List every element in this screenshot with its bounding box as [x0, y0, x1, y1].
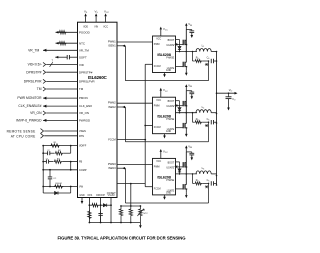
svg-text:DPRSTP#: DPRSTP#: [79, 70, 93, 74]
wire PWM2 from controller: [117, 102, 153, 104]
ground output cap: [228, 99, 230, 108]
capacitor C3 to ground: [100, 211, 102, 214]
wire OFS vertical: [88, 198, 90, 223]
wire VSUM vertical: [110, 198, 112, 223]
resistor RS1: [193, 60, 195, 62]
diode DBOOT3 bootstrap: [176, 161, 180, 163]
svg-text:RTN: RTN: [79, 135, 84, 138]
svg-text:PGOOD: PGOOD: [79, 31, 90, 35]
driver U3 ISL6208 body: [153, 97, 176, 134]
power rail V5 into pin VIN: [95, 16, 97, 22]
diode D2 droop: [101, 204, 104, 206]
svg-text:DPRSTP#: DPRSTP#: [26, 70, 41, 74]
wire output rail: [216, 52, 218, 186]
capacitor CSOFT on SOFT pin: [55, 56, 67, 58]
wire FCCM vertical bus: [144, 64, 146, 186]
ground at rail end: [139, 223, 141, 226]
wire DROOP vertical: [100, 198, 102, 223]
svg-text:VSUM: VSUM: [108, 194, 115, 197]
svg-text:CLK_ENABLE#: CLK_ENABLE#: [18, 104, 41, 108]
transistor Q3 high-side: [182, 101, 184, 106]
svg-text:CC: CC: [53, 178, 57, 180]
node OCSET top row: [121, 205, 140, 207]
svg-text:PWM: PWM: [154, 167, 160, 169]
capacitor C1 and resistor R3 on FB: [43, 161, 46, 163]
svg-text:PHASE: PHASE: [166, 179, 174, 182]
resistor R4 between OFS and DROOP: [89, 204, 91, 206]
ground low-side source 3: [185, 189, 187, 193]
wire COMP line: [43, 169, 77, 171]
svg-text:UGATE: UGATE: [166, 105, 174, 108]
wire inductor L2 to output: [211, 112, 216, 114]
thermistor NTC: [139, 206, 141, 208]
svg-text:DPRSLPVR: DPRSLPVR: [79, 80, 95, 84]
svg-text:ISEN2: ISEN2: [108, 105, 116, 109]
wire bottom ground rail: [89, 222, 140, 224]
svg-text:NTC: NTC: [79, 41, 85, 45]
svg-text:ISEN1: ISEN1: [108, 44, 116, 48]
svg-text:VDIFF: VDIFF: [79, 145, 87, 148]
wire inductor L3 to output: [211, 173, 216, 175]
wire PWM3 from controller: [117, 163, 153, 165]
node RTN wire: [41, 133, 44, 138]
svg-text:FCCM: FCCM: [108, 137, 116, 141]
svg-text:VDD: VDD: [83, 26, 88, 29]
wire compensation left rail: [42, 146, 44, 193]
resistor RSUM on VW: [43, 186, 77, 188]
wire FCCM to driver 3: [145, 186, 152, 188]
transistor Q4 low-side: [182, 123, 184, 128]
driver U2 ISL6208 body: [153, 36, 176, 73]
svg-text:VR_TM: VR_TM: [28, 48, 39, 52]
svg-text:REMOTE SENSE: REMOTE SENSE: [7, 130, 36, 134]
transistor Q2 low-side: [182, 62, 184, 67]
svg-text:ISL6208: ISL6208: [157, 113, 171, 118]
svg-text:PWM3: PWM3: [108, 162, 116, 166]
svg-text:VCC: VCC: [156, 161, 161, 163]
ground below GND pin: [81, 198, 83, 202]
svg-text:FCCM: FCCM: [154, 188, 161, 190]
diode D1 bottom branch: [43, 192, 54, 194]
ground below driver 1: [164, 73, 166, 75]
node VSEN wire: [41, 129, 44, 134]
wire PHASE node 3: [176, 173, 198, 175]
power rail VCC into pin VCC: [105, 16, 107, 22]
svg-text:FCCM: FCCM: [154, 66, 161, 68]
wire FB-COMP join: [70, 162, 72, 170]
diode DBOOT2 bootstrap: [176, 100, 180, 102]
svg-text:UGATE: UGATE: [166, 166, 174, 169]
power VCC arrow driver 3: [160, 152, 162, 159]
wire FCCM to driver 1: [145, 63, 152, 65]
inductor L2: [196, 110, 211, 113]
power rail V5 into pin VDD: [85, 16, 87, 22]
wire LGATE1: [176, 66, 184, 68]
wire PWM1 from controller: [117, 41, 153, 43]
IC U1 ISL6260C body: [78, 22, 118, 197]
power VIN phase 2: [185, 91, 187, 113]
svg-text:PWM: PWM: [154, 105, 160, 107]
wire LGATE2: [176, 127, 184, 129]
svg-text:DROOP: DROOP: [96, 194, 105, 197]
power VIN phase 1: [185, 30, 187, 52]
power VCC arrow driver 1: [160, 29, 162, 36]
capacitor CIN2 decoupling: [186, 90, 192, 92]
svg-text:LGATE: LGATE: [167, 67, 175, 70]
wire UGATE2: [176, 105, 184, 107]
wire DCR sense drop 3: [192, 174, 194, 184]
ground below driver 2: [164, 134, 166, 136]
wire inductor L1 to output: [211, 51, 216, 53]
wire branch join VDIFF: [70, 146, 72, 154]
svg-text:VID: VID: [79, 63, 84, 67]
driver U4 ISL6208 body: [153, 158, 176, 195]
capacitor CIN1 decoupling: [186, 29, 192, 31]
ground low-side source 1: [185, 67, 187, 71]
svg-text:GND: GND: [166, 131, 171, 133]
resistor RS2: [193, 121, 195, 123]
svg-text:SOFT: SOFT: [79, 55, 87, 59]
svg-text:CLK_EN#: CLK_EN#: [79, 104, 92, 108]
wire FCCM feed from IC: [117, 139, 145, 141]
svg-text:TM: TM: [79, 87, 84, 91]
svg-text:IMVP-6_PWRGD: IMVP-6_PWRGD: [16, 119, 42, 123]
wire DCR sense drop 2: [192, 113, 194, 123]
ground below driver 3: [164, 195, 166, 197]
resistor pull-up to NTC pin: [56, 42, 78, 44]
svg-text:VR_TM: VR_TM: [79, 48, 89, 52]
capacitor CO output: [228, 93, 230, 97]
svg-text:GND: GND: [79, 194, 85, 197]
svg-text:VIN: VIN: [94, 26, 98, 29]
svg-text:PWM: PWM: [154, 44, 160, 46]
wire DCR sense drop 1: [192, 52, 194, 62]
svg-text:BOOT: BOOT: [168, 40, 175, 42]
wire PHASE node 2: [176, 112, 198, 114]
wire FCCM to driver 2: [145, 125, 152, 127]
resistor R1 VDIFF: [43, 145, 77, 147]
svg-text:COMP: COMP: [79, 169, 87, 172]
svg-text:LGATE: LGATE: [167, 128, 175, 131]
svg-text:ISL6208: ISL6208: [157, 175, 171, 180]
ground low-side source 2: [185, 128, 187, 132]
svg-text:FIGURE 39. TYPICAL APPLICATION: FIGURE 39. TYPICAL APPLICATION CIRCUIT F…: [58, 236, 187, 241]
svg-text:VCC: VCC: [103, 26, 108, 29]
wire PHASE node 1: [176, 51, 198, 53]
svg-text:VW: VW: [79, 186, 84, 189]
svg-text:VR_ON: VR_ON: [30, 111, 42, 115]
svg-text:BOOT: BOOT: [168, 162, 175, 164]
inductor L1: [196, 49, 211, 52]
wire ISEN1 tap: [208, 61, 210, 81]
power VIN phase 3: [185, 152, 187, 174]
transistor Q1 high-side: [182, 40, 184, 45]
svg-text:VID<0:6>: VID<0:6>: [28, 63, 42, 67]
wire ISEN3 tap: [208, 183, 210, 203]
resistor R5 to ground: [88, 210, 91, 219]
capacitor CS3: [210, 181, 212, 185]
wire UGATE3: [176, 166, 184, 168]
wire VW-bottom join: [70, 187, 72, 194]
wire ISEN2 tap: [208, 122, 210, 142]
svg-text:PWRGD: PWRGD: [79, 119, 90, 123]
resistor RNTC branch: [130, 206, 132, 208]
capacitor CC branch: [49, 170, 51, 177]
svg-text:ISEN3: ISEN3: [108, 166, 116, 170]
inductor L3: [196, 171, 211, 174]
diode DBOOT1 bootstrap: [176, 39, 180, 41]
svg-text:PHASE: PHASE: [166, 57, 174, 60]
svg-text:OFS: OFS: [87, 194, 92, 197]
transistor Q5 high-side: [182, 162, 184, 167]
power VCC arrow driver 2: [160, 90, 162, 97]
capacitor C2 and resistor R2 branch: [43, 152, 47, 154]
resistor RS3: [193, 182, 195, 184]
wire LGATE3: [176, 188, 184, 190]
svg-text:PHASE: PHASE: [166, 118, 174, 121]
svg-text:BOOT: BOOT: [168, 101, 175, 103]
svg-text:PWR MONITOR: PWR MONITOR: [17, 96, 42, 100]
svg-text:GND: GND: [166, 70, 171, 72]
svg-text:DPRSLPVR: DPRSLPVR: [24, 80, 42, 84]
svg-text:PWM1: PWM1: [108, 39, 116, 43]
svg-text:FCCM: FCCM: [154, 127, 161, 129]
resistor ROCSET: [120, 206, 122, 208]
svg-text:PMON: PMON: [79, 96, 88, 100]
svg-text:VCC: VCC: [156, 39, 161, 41]
svg-text:RSUM: RSUM: [55, 183, 61, 185]
svg-text:AT CPU CORE: AT CPU CORE: [11, 134, 36, 138]
svg-text:ISL6208: ISL6208: [157, 52, 171, 57]
svg-text:VCC: VCC: [156, 100, 161, 102]
svg-text:NTC: NTC: [143, 213, 148, 215]
svg-text:PWM2: PWM2: [108, 101, 116, 105]
capacitor CS1: [210, 59, 212, 63]
resistor pull-up to PGOOD pin: [56, 31, 78, 33]
node VO output: [217, 92, 236, 94]
svg-text:VR_ON: VR_ON: [79, 111, 89, 115]
capacitor CIN3 decoupling: [186, 151, 192, 153]
wire OCSET route: [117, 183, 145, 185]
svg-text:LGATE: LGATE: [167, 189, 175, 192]
svg-text:FB: FB: [79, 161, 83, 164]
svg-text:GND: GND: [166, 192, 171, 194]
svg-text:UGATE: UGATE: [166, 44, 174, 47]
wire UGATE1: [176, 44, 184, 46]
bus width slash 7: [50, 62, 53, 67]
capacitor CS2: [210, 120, 212, 124]
svg-text:VSEN: VSEN: [79, 130, 86, 133]
svg-text:TM: TM: [37, 87, 42, 91]
transistor Q6 low-side: [182, 184, 184, 189]
